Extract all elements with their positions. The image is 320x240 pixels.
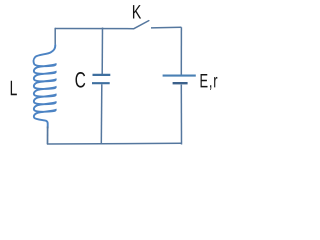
label L [11, 81, 17, 95]
label K [133, 5, 141, 18]
switch K blade [134, 21, 149, 29]
wire left vertical + inductor L coil [34, 45, 56, 128]
label E,r [201, 74, 218, 90]
capacitor C top plate [93, 74, 111, 76]
wire capacitor bottom lead [100, 84, 103, 144]
battery E short plate [173, 82, 188, 84]
wire capacitor top lead [101, 28, 103, 75]
wire left vertical [54, 28, 56, 47]
wire left-bottom vertical [47, 127, 49, 145]
wire top-right horizontal [151, 26, 181, 29]
wire battery bottom lead [180, 85, 182, 145]
battery E long plate [163, 75, 196, 77]
wire battery top lead [180, 27, 182, 74]
wire top-left horizontal [55, 28, 134, 30]
wire bottom horizontal [47, 142, 182, 145]
label C [75, 72, 85, 88]
capacitor C bottom plate [92, 82, 110, 84]
